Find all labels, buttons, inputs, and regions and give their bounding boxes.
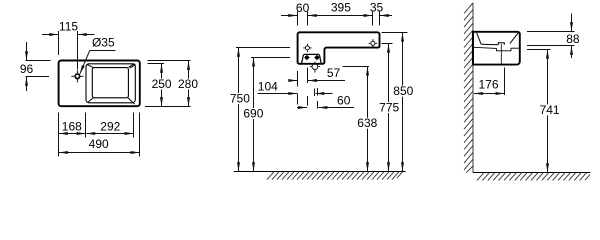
dim 638 line bbox=[367, 67, 369, 171]
dim 168 line bbox=[59, 133, 85, 135]
dim 750 line bbox=[238, 48, 240, 171]
front view outline bbox=[298, 32, 380, 64]
side profile back edge bbox=[472, 32, 474, 65]
svg-text:490: 490 bbox=[89, 137, 109, 151]
dim 60 lower arrows bbox=[297, 107, 307, 109]
bowl inner bottom line bbox=[481, 43, 498, 46]
drain flange bbox=[497, 48, 511, 51]
svg-text:741: 741 bbox=[540, 103, 560, 117]
dim 775 text bbox=[378, 102, 401, 113]
drain axis inside bbox=[500, 44, 502, 65]
mounting hole upper-right crosshair bbox=[369, 39, 377, 47]
dim 741 text bbox=[537, 104, 560, 115]
dim 750 extension line bbox=[236, 47, 290, 49]
wall line bbox=[472, 3, 474, 173]
dim 96 arrows bbox=[26, 42, 28, 60]
wall hatching bbox=[464, 3, 473, 173]
floor line middle bbox=[234, 171, 406, 173]
dim 850 text bbox=[392, 86, 415, 97]
bracket hole left bbox=[304, 55, 310, 61]
bowl corner diagonal top-left bbox=[88, 65, 94, 68]
bottom dims extension lines bbox=[58, 113, 60, 157]
svg-text:690: 690 bbox=[243, 107, 263, 121]
bowl left wall bbox=[477, 33, 482, 45]
dim 60 top arrows bbox=[281, 15, 297, 17]
bowl corner diagonal bottom-left bbox=[88, 98, 93, 102]
dim 775 line bbox=[388, 44, 390, 171]
svg-text:60: 60 bbox=[296, 1, 310, 15]
drain plug bump bbox=[498, 43, 504, 45]
dim 490 line bbox=[59, 152, 139, 154]
dim 250 line bbox=[161, 64, 163, 106]
svg-text:775: 775 bbox=[379, 101, 399, 115]
dim 690 line bbox=[253, 58, 255, 171]
dim 88 arrows bbox=[571, 14, 573, 32]
ext line B below hole bbox=[307, 68, 309, 84]
dim 115 arrows bbox=[42, 34, 58, 36]
ext line C bracket hole right bbox=[317, 88, 319, 96]
bowl inner bottom bbox=[92, 68, 128, 98]
drain axis extension below bbox=[504, 67, 506, 95]
floor hatching middle bbox=[267, 172, 402, 180]
svg-text:176: 176 bbox=[478, 78, 498, 92]
svg-text:57: 57 bbox=[327, 66, 341, 80]
dim 250 text bbox=[151, 79, 174, 90]
dim 292 line bbox=[86, 133, 133, 135]
ext line drain bbox=[314, 89, 316, 97]
dim 115 extension lines bbox=[58, 31, 60, 55]
dim 395 line bbox=[308, 15, 373, 17]
shell line left bbox=[474, 47, 497, 48]
dim 850 line bbox=[402, 33, 404, 171]
faucet hole crosshair bbox=[71, 70, 83, 82]
svg-text:395: 395 bbox=[331, 1, 351, 15]
svg-text:Ø35: Ø35 bbox=[92, 36, 115, 50]
bracket hole right bbox=[314, 55, 320, 61]
dim 96 extension lines bbox=[26, 60, 51, 62]
ext line A below left edge bbox=[297, 71, 299, 87]
floor hatching side bbox=[477, 173, 590, 181]
drain crosshair bbox=[310, 62, 320, 73]
svg-text:280: 280 bbox=[178, 77, 198, 91]
svg-text:168: 168 bbox=[62, 119, 82, 133]
svg-text:115: 115 bbox=[59, 20, 78, 34]
svg-text:88: 88 bbox=[566, 32, 580, 46]
dim 35 arrow bbox=[380, 15, 392, 17]
svg-text:638: 638 bbox=[357, 116, 377, 130]
leader Ø35 bbox=[90, 50, 116, 52]
overflow bracket bbox=[302, 54, 322, 63]
dim 88 extension lines bbox=[527, 31, 574, 33]
svg-text:292: 292 bbox=[100, 119, 120, 133]
dim 176 line bbox=[474, 93, 504, 95]
dim 280 extension lines bbox=[147, 60, 190, 62]
dim 280 line bbox=[188, 61, 190, 106]
svg-text:850: 850 bbox=[393, 84, 413, 98]
shell line right bbox=[511, 47, 520, 49]
dim 280 text bbox=[177, 79, 200, 90]
svg-text:35: 35 bbox=[370, 1, 384, 15]
dim 690 text bbox=[242, 108, 265, 119]
dim 690 extension line bbox=[251, 57, 290, 59]
bowl corner diagonal top-right bbox=[129, 64, 135, 68]
top dims extension lines bbox=[297, 12, 299, 26]
dim 750 text bbox=[229, 93, 252, 104]
svg-text:96: 96 bbox=[20, 62, 34, 76]
dim 741 line bbox=[547, 50, 549, 172]
bowl outer rim bbox=[86, 64, 135, 103]
dim 638 extension line bbox=[343, 66, 369, 68]
floor line side bbox=[473, 172, 590, 174]
dim 250 extension line bbox=[148, 63, 165, 65]
bowl right wall bbox=[510, 33, 519, 44]
svg-text:60: 60 bbox=[337, 94, 351, 108]
dim 850 extension line bbox=[382, 32, 408, 34]
bowl corner diagonal bottom-right bbox=[128, 98, 135, 104]
dim 104 line and arrows bbox=[258, 93, 298, 95]
svg-text:104: 104 bbox=[258, 79, 278, 93]
dim 775 extension line bbox=[382, 43, 393, 45]
dim 57 arrows bbox=[289, 80, 298, 82]
svg-text:250: 250 bbox=[152, 77, 172, 91]
svg-text:750: 750 bbox=[230, 92, 250, 106]
side profile outline bbox=[473, 32, 520, 65]
dim 638 text bbox=[357, 118, 380, 129]
dim 741 extension line bbox=[527, 49, 551, 51]
top view outer rim outline bbox=[59, 61, 140, 107]
mounting hole upper-left crosshair bbox=[303, 44, 311, 52]
